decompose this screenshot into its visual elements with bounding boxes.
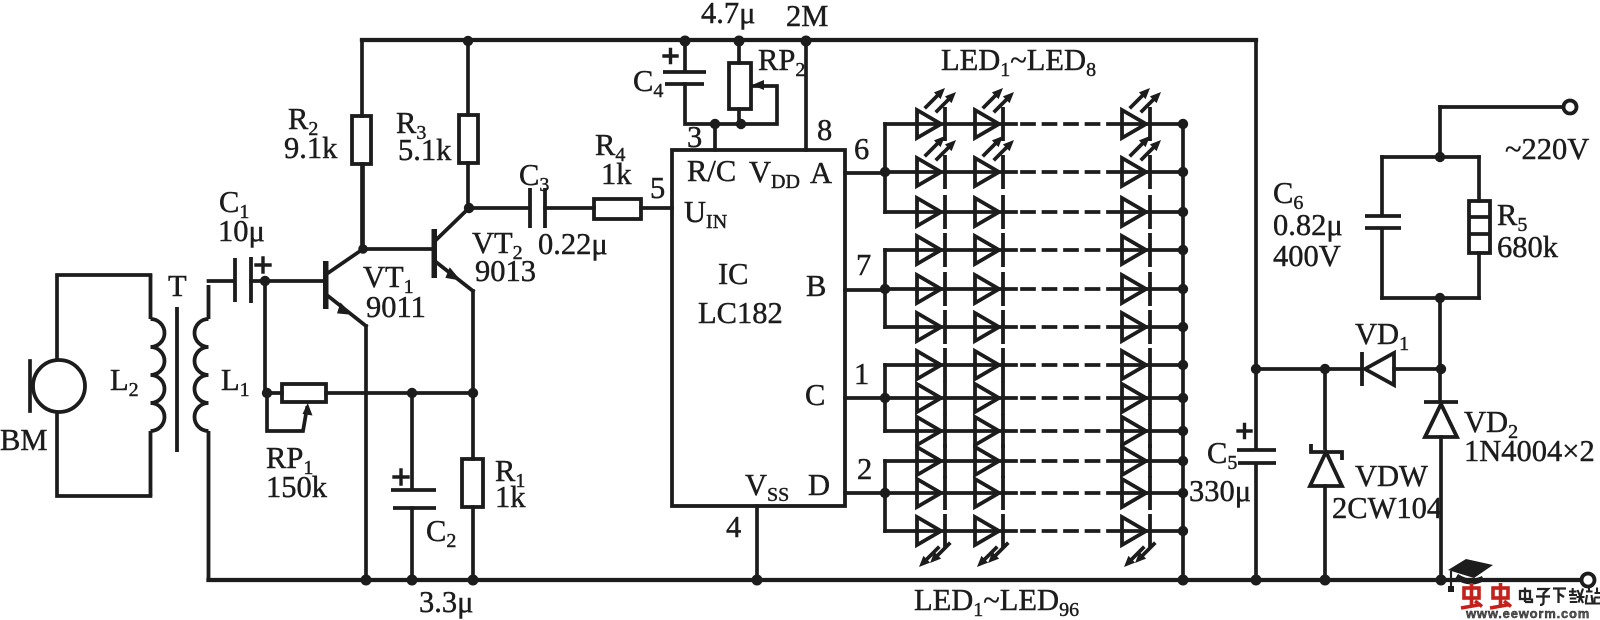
svg-text:9.1k: 9.1k — [284, 131, 338, 165]
svg-text:C3: C3 — [519, 158, 549, 196]
svg-text:RP2: RP2 — [758, 43, 805, 81]
svg-text:C: C — [805, 378, 825, 412]
svg-text:3.3μ: 3.3μ — [419, 585, 473, 619]
svg-text:1k: 1k — [601, 157, 632, 191]
svg-text:3: 3 — [687, 120, 702, 154]
svg-text:1k: 1k — [495, 480, 526, 514]
svg-text:LED1~LED8: LED1~LED8 — [941, 43, 1096, 81]
svg-text:2: 2 — [857, 452, 872, 486]
svg-text:C4: C4 — [633, 64, 663, 102]
svg-text:R/C: R/C — [687, 154, 736, 188]
svg-text:D: D — [808, 468, 830, 502]
svg-text:A: A — [810, 156, 832, 190]
svg-text:10μ: 10μ — [218, 214, 265, 248]
svg-text:400V: 400V — [1273, 239, 1341, 273]
svg-text:L2: L2 — [110, 363, 139, 401]
svg-text:UIN: UIN — [684, 195, 727, 233]
svg-text:4: 4 — [726, 510, 741, 544]
svg-text:IC: IC — [718, 257, 749, 291]
svg-text:VDW: VDW — [1355, 459, 1428, 493]
svg-text:VDD: VDD — [749, 155, 800, 193]
svg-text:9013: 9013 — [475, 254, 536, 288]
svg-text:330μ: 330μ — [1189, 474, 1251, 508]
svg-text:VSS: VSS — [745, 468, 789, 506]
svg-text:680k: 680k — [1497, 230, 1559, 264]
svg-text:L1: L1 — [221, 363, 250, 401]
svg-text:C2: C2 — [426, 514, 456, 552]
svg-text:BM: BM — [0, 423, 47, 457]
svg-text:0.22μ: 0.22μ — [538, 227, 608, 261]
svg-text:LC182: LC182 — [698, 296, 783, 330]
svg-text:2M: 2M — [786, 0, 828, 33]
svg-text:8: 8 — [817, 113, 832, 147]
svg-text:5: 5 — [650, 171, 665, 205]
svg-text:VD1: VD1 — [1355, 317, 1409, 355]
svg-text:150k: 150k — [266, 470, 328, 504]
svg-text:B: B — [806, 269, 826, 303]
svg-text:1: 1 — [854, 357, 869, 391]
svg-text:www.eeworm.com: www.eeworm.com — [1465, 606, 1590, 620]
svg-text:0.82μ: 0.82μ — [1273, 208, 1343, 242]
svg-text:2CW104: 2CW104 — [1332, 491, 1442, 525]
svg-text:T: T — [168, 269, 187, 303]
svg-text:5.1k: 5.1k — [398, 133, 452, 167]
svg-text:4.7μ: 4.7μ — [701, 0, 755, 30]
svg-text:C5: C5 — [1207, 436, 1237, 474]
svg-text:~220V: ~220V — [1505, 132, 1589, 166]
svg-text:LED1~LED96: LED1~LED96 — [914, 583, 1079, 620]
svg-text:1N4004×2: 1N4004×2 — [1464, 434, 1595, 468]
svg-text:6: 6 — [854, 132, 869, 166]
svg-text:7: 7 — [856, 248, 871, 282]
svg-text:9011: 9011 — [366, 290, 426, 324]
